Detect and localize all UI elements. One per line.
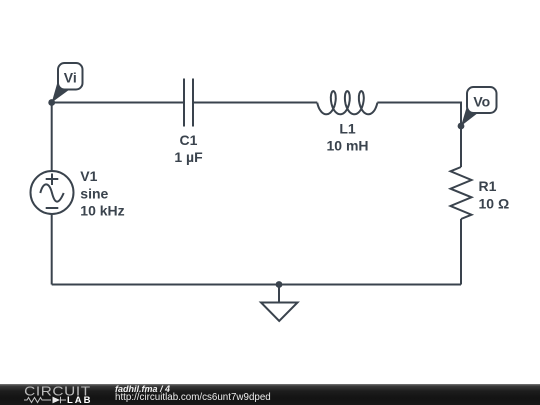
svg-text:10 mH: 10 mH [326,138,368,154]
svg-text:10 Ω: 10 Ω [479,195,510,211]
svg-text:sine: sine [80,185,108,201]
svg-text:Vo: Vo [473,93,490,109]
svg-text:1 µF: 1 µF [174,149,203,165]
svg-text:C1: C1 [180,132,198,148]
svg-text:LAB: LAB [67,395,93,405]
svg-text:V1: V1 [80,168,97,184]
svg-text:R1: R1 [479,178,497,194]
svg-text:L1: L1 [339,121,356,137]
svg-text:10 kHz: 10 kHz [80,203,124,219]
svg-text:Vi: Vi [64,69,77,85]
